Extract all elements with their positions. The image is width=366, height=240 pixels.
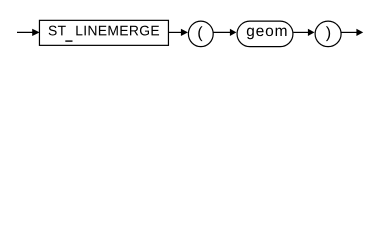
label ) — [326, 26, 330, 41]
arrowhead into ST_LINEMERGE box — [32, 29, 40, 36]
stadium geom — [237, 21, 293, 47]
arrowhead exit — [356, 29, 363, 36]
underscore of ST_LINEMERGE — [65, 40, 72, 41]
wire: box to ( — [169, 31, 182, 33]
label ST_LINEMERGE — [49, 26, 66, 36]
label geom — [247, 28, 287, 40]
wire: geom to ) — [294, 31, 309, 33]
label ( — [198, 26, 202, 41]
wire: exit line — [341, 31, 357, 33]
arrowhead into geom — [230, 29, 237, 36]
wire: ( to geom — [213, 31, 231, 33]
wire: entry line — [17, 31, 34, 33]
arrowhead into ) — [308, 29, 315, 36]
box ST_LINEMERGE — [39, 20, 168, 45]
terminal oval ) — [315, 21, 341, 47]
arrowhead into ( — [181, 29, 188, 36]
terminal oval ( — [188, 21, 213, 47]
